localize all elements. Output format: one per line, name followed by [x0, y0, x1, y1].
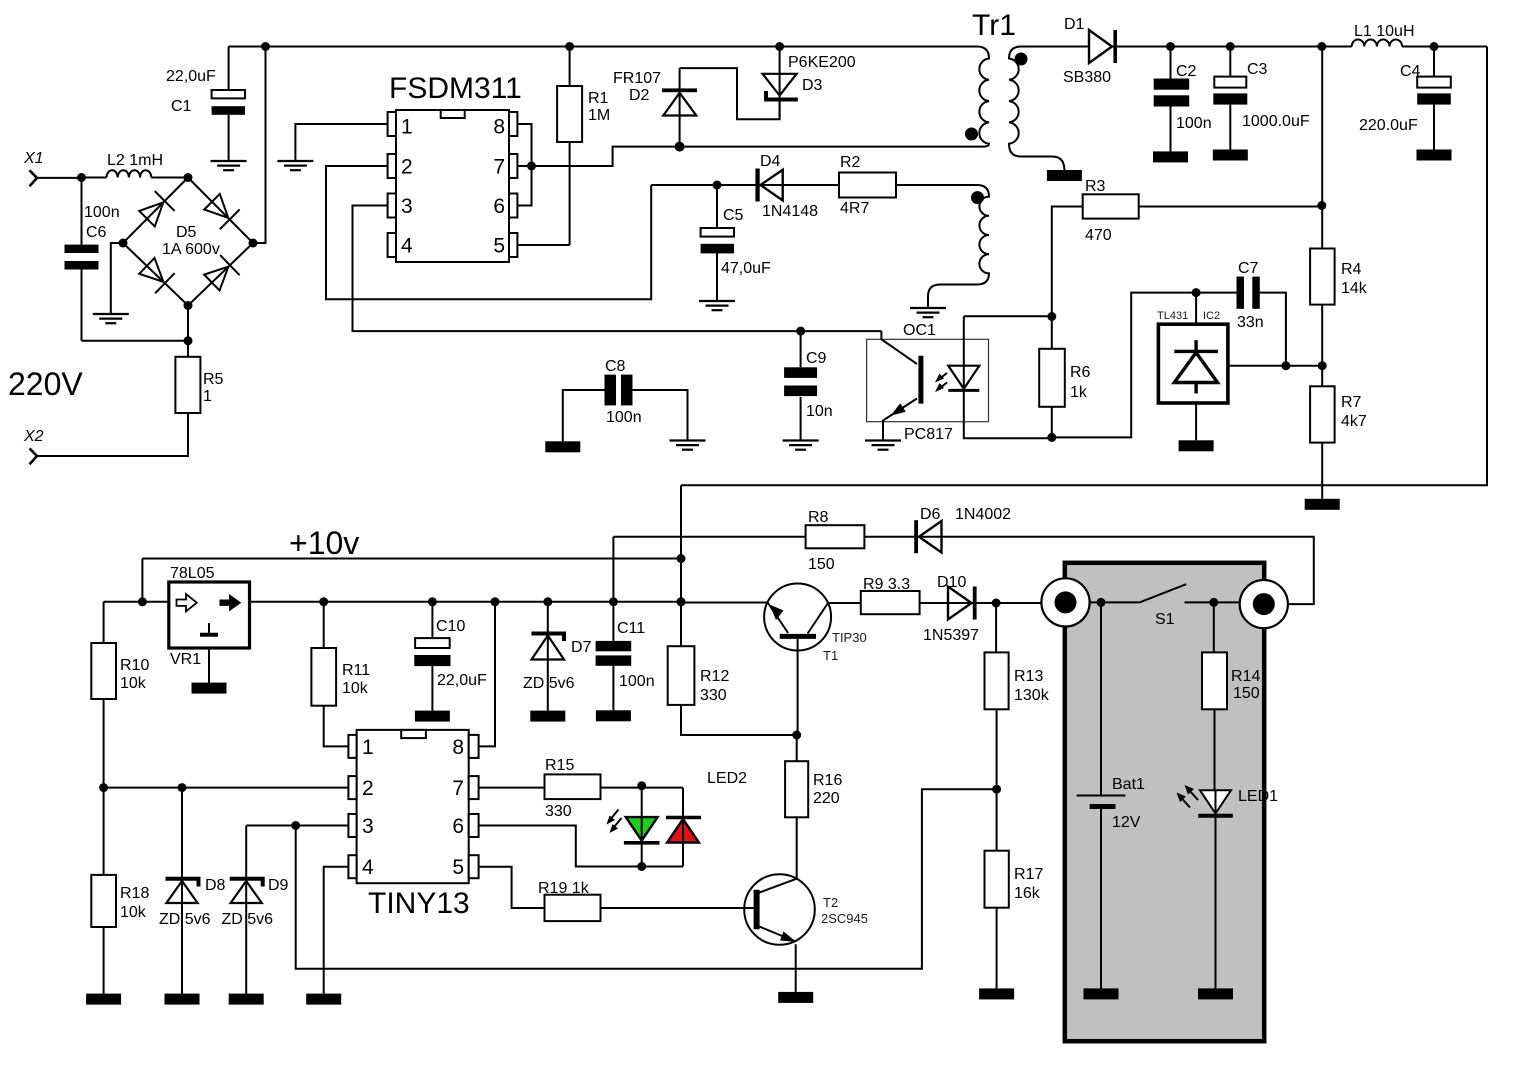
OC1 light arrows — [935, 373, 947, 392]
pin 4 (FSDM311) — [388, 233, 413, 258]
svg-text:150: 150 — [1233, 685, 1260, 702]
svg-text:R3: R3 — [1085, 178, 1106, 195]
svg-text:14k: 14k — [1341, 280, 1368, 297]
diode D4 1N4148 — [755, 153, 818, 220]
ground bar (Bat1) — [1084, 988, 1119, 999]
wire: node to D4 — [651, 184, 839, 186]
bridge diode top-right — [202, 192, 239, 229]
svg-text:R18: R18 — [120, 885, 149, 902]
svg-text:D3: D3 — [802, 77, 823, 94]
ground bar (TL431 anode) — [1179, 440, 1214, 451]
svg-text:C10: C10 — [436, 618, 465, 635]
transistor T1 TIP30 — [764, 584, 867, 736]
svg-text:R2: R2 — [840, 154, 861, 171]
svg-text:C8: C8 — [605, 358, 626, 375]
resistor R3 470 — [1052, 178, 1322, 317]
ground bar (R18) — [86, 994, 121, 1005]
wire: VR1 ground lead — [208, 648, 210, 683]
svg-text:R10: R10 — [120, 657, 149, 674]
bridge rectifier D5 : diamond wires — [123, 178, 253, 306]
ground bar (C2) — [1153, 151, 1188, 162]
resistor R17 16k — [985, 851, 1044, 989]
wire: pin2 row (R10/R18, D8) — [104, 787, 349, 789]
node: R3 right / R4 top — [1317, 201, 1326, 210]
resistor R2 4R7 — [839, 154, 896, 217]
ground bar (D9) — [229, 994, 264, 1005]
node: C5 / D4 — [713, 181, 722, 190]
svg-text:D9: D9 — [268, 877, 289, 894]
LED1 — [1198, 788, 1278, 988]
ground bar (pin4) — [306, 994, 341, 1005]
node: R3/R6/OC1-anode — [1047, 312, 1056, 321]
ground bar (C4) — [1417, 150, 1452, 161]
diode D2 FR107 — [613, 68, 697, 147]
svg-text:R12: R12 — [700, 668, 729, 685]
ground (aux winding) — [910, 308, 946, 317]
svg-text:Tr1: Tr1 — [972, 9, 1016, 42]
resistor R12 330 — [668, 646, 797, 735]
ground bar (D8) — [165, 994, 200, 1005]
wire: T1 collector to R9 — [828, 602, 861, 604]
node: +10v / output feed — [677, 554, 686, 563]
node: D10 / R13 — [992, 599, 1001, 608]
wire: +10v rail — [142, 559, 681, 602]
ground bar (T2 emitter) — [778, 992, 813, 1003]
svg-text:10n: 10n — [806, 403, 833, 420]
inductor L1 10uH — [1352, 23, 1487, 47]
svg-text:10k: 10k — [120, 675, 147, 692]
svg-text:ZD 5v6: ZD 5v6 — [523, 675, 575, 692]
ground bar (R17) — [979, 988, 1014, 999]
svg-text:R11: R11 — [342, 662, 370, 679]
wire: pin3 long feedback line to OC1 — [353, 206, 882, 332]
wire: R8 branch corner — [612, 537, 614, 602]
capacitor C4 — [1359, 47, 1451, 150]
battery Bat1 12V — [1077, 602, 1145, 988]
node: L1 left — [1317, 42, 1326, 51]
wire: left jack to S1 — [1090, 601, 1140, 603]
node: secondary phase dot — [1015, 53, 1028, 66]
svg-text:LED2: LED2 — [707, 770, 747, 787]
svg-text:220.0uF: 220.0uF — [1359, 117, 1418, 134]
node: bridge top — [184, 173, 193, 182]
svg-text:1N4002: 1N4002 — [955, 506, 1011, 523]
svg-text:150: 150 — [808, 556, 835, 573]
pin 1 (TINY13) — [348, 735, 373, 759]
optocoupler OC1 PC817 box — [867, 322, 989, 443]
svg-text:PC817: PC817 — [904, 426, 953, 443]
svg-text:22,0uF: 22,0uF — [437, 672, 487, 689]
pin 8 (TINY13) — [452, 735, 478, 759]
wire: R19 to T2 base — [601, 907, 754, 909]
capacitor C3 — [1213, 47, 1310, 150]
node: C4 top — [1430, 42, 1439, 51]
node: T1 base / R12 / R16 — [792, 731, 801, 740]
svg-text:1N4148: 1N4148 — [762, 203, 818, 220]
node: primary phase dot — [965, 128, 978, 141]
capacitor C9 — [784, 331, 833, 440]
svg-text:10k: 10k — [120, 904, 147, 921]
node: C10 top — [428, 597, 437, 606]
node: +10v corner on rail — [138, 597, 147, 606]
svg-text:+10v: +10v — [289, 525, 359, 561]
svg-text:C6: C6 — [86, 224, 107, 241]
OC1 phototransistor — [881, 331, 921, 440]
capacitor C6 — [65, 178, 120, 341]
node: pin3 line / C9 — [796, 327, 805, 336]
svg-text:5: 5 — [493, 235, 505, 258]
svg-text:R5: R5 — [203, 371, 224, 388]
node: pin3 branch — [291, 821, 300, 830]
LED2 red diode — [666, 788, 701, 867]
capacitor C10 — [414, 602, 487, 711]
pin 2 (FSDM311) — [388, 154, 413, 179]
Tr1 secondary winding — [1009, 47, 1088, 171]
svg-text:D10: D10 — [937, 574, 966, 591]
node: aux phase dot — [971, 191, 984, 204]
resistor R4 14k — [1310, 47, 1368, 366]
ground (C5) — [699, 301, 735, 310]
Tr1 primary winding — [977, 47, 989, 147]
svg-text:L2 1mH: L2 1mH — [107, 152, 163, 169]
svg-text:4: 4 — [362, 856, 374, 879]
svg-text:R7: R7 — [1341, 394, 1362, 411]
wire: pin3 branch to battery divider — [296, 789, 997, 969]
svg-text:R19 1k: R19 1k — [538, 880, 590, 897]
svg-text:FR107: FR107 — [613, 70, 661, 87]
svg-text:TL431: TL431 — [1157, 310, 1188, 322]
svg-text:7: 7 — [452, 777, 464, 800]
ground (C8 right) — [670, 441, 706, 450]
svg-text:330: 330 — [700, 687, 727, 704]
svg-text:C2: C2 — [1176, 63, 1197, 80]
ground bar (C3) — [1213, 150, 1248, 161]
zener D3 P6KE200 — [763, 47, 856, 120]
ground bar (D7) — [530, 711, 565, 722]
node: C2 top — [1166, 42, 1175, 51]
wire: R5 to X2 — [37, 413, 188, 456]
bridge diode top-left — [137, 191, 174, 228]
connector jack left — [1041, 578, 1089, 626]
svg-text:T1: T1 — [823, 648, 838, 663]
node: D8 top — [178, 783, 187, 792]
svg-text:7: 7 — [493, 156, 505, 179]
svg-text:R4: R4 — [1341, 261, 1362, 278]
svg-text:D4: D4 — [760, 153, 781, 170]
OC1 LED — [948, 316, 1052, 438]
pin 2 (TINY13) — [348, 776, 373, 800]
capacitor C11 — [596, 602, 655, 711]
resistor R1 — [517, 47, 610, 246]
svg-text:1000.0uF: 1000.0uF — [1242, 113, 1310, 130]
svg-text:2SC945: 2SC945 — [821, 911, 868, 926]
node: R13/R17 divider — [992, 785, 1001, 794]
svg-text:100n: 100n — [606, 409, 642, 426]
svg-text:Bat1: Bat1 — [1112, 776, 1145, 793]
wire: bridge bottom to R5 — [187, 306, 189, 357]
svg-text:X2: X2 — [23, 428, 44, 445]
svg-text:SB380: SB380 — [1063, 69, 1111, 86]
diode D6 1N4002 — [864, 506, 1313, 604]
pin 6 (TINY13) — [452, 814, 478, 838]
LED1 light arrows — [1177, 785, 1199, 808]
svg-text:1A 600v: 1A 600v — [162, 241, 220, 258]
resistor R14 150 — [1202, 602, 1260, 790]
svg-text:8: 8 — [493, 116, 505, 139]
wire: pin3 row — [246, 825, 348, 827]
resistor R9 3.3 — [861, 576, 920, 614]
resistor R19 1k — [538, 880, 601, 921]
wire: output right rail — [681, 47, 1487, 486]
capacitor C1 — [166, 47, 245, 162]
svg-text:R16: R16 — [813, 772, 842, 789]
pin 7 (TINY13) — [452, 776, 478, 800]
node: bridge left — [119, 239, 128, 248]
svg-text:1k: 1k — [1070, 384, 1088, 401]
svg-text:470: 470 — [1085, 227, 1112, 244]
resistor R8 150 — [613, 509, 864, 573]
svg-text:S1: S1 — [1155, 611, 1175, 628]
wire: rail to T1 emitter — [681, 602, 768, 604]
wire: HV+ top rail from C1 corner to transformer primary — [229, 46, 977, 48]
svg-text:R15: R15 — [545, 757, 574, 774]
svg-text:LED1: LED1 — [1238, 788, 1278, 805]
svg-text:3: 3 — [362, 815, 374, 838]
svg-text:100n: 100n — [619, 673, 655, 690]
resistor R6 1k — [1039, 317, 1090, 438]
node: R11 top — [319, 597, 328, 606]
wire: OC1 LED anode to R3/R6 node — [964, 315, 1052, 317]
svg-text:4R7: 4R7 — [840, 200, 869, 217]
bridge diode bottom-left — [137, 256, 174, 294]
svg-text:220: 220 — [813, 790, 840, 807]
svg-text:VR1: VR1 — [170, 651, 201, 668]
bridge diode bottom-right — [202, 255, 239, 293]
wire: pin2 loop to C5 node — [326, 166, 651, 299]
svg-text:1M: 1M — [588, 107, 610, 124]
svg-text:5: 5 — [452, 856, 464, 879]
diode D10 1N5397 — [920, 574, 1042, 644]
svg-text:47,0uF: 47,0uF — [721, 260, 771, 277]
switch S1 — [1140, 584, 1240, 628]
IC2 TL431 — [1157, 293, 1228, 441]
svg-text:ZD 5v6: ZD 5v6 — [222, 911, 274, 928]
ground (pin1 FSDM) — [277, 161, 313, 170]
svg-text:100n: 100n — [84, 204, 120, 221]
pin 1 (FSDM311) — [388, 112, 413, 139]
regulator VR1 78L05 — [169, 565, 250, 668]
resistor R10 10k — [91, 602, 149, 788]
wire: bridge left corner to ground — [111, 243, 123, 314]
wire: C6 bottom to junction — [82, 340, 189, 342]
node: C7 right — [1281, 361, 1290, 370]
svg-text:1N5397: 1N5397 — [923, 627, 979, 644]
terminal X1 — [23, 150, 82, 186]
LED2 green diode — [624, 788, 660, 867]
svg-text:D1: D1 — [1064, 16, 1085, 33]
node: R1 top — [565, 42, 574, 51]
inductor L2 1mH — [82, 152, 189, 178]
svg-text:4: 4 — [401, 235, 413, 258]
svg-text:8: 8 — [452, 736, 464, 759]
svg-text:C1: C1 — [171, 98, 192, 115]
svg-text:C3: C3 — [1247, 61, 1268, 78]
wire: pin5 to R19 — [479, 867, 545, 908]
svg-text:X1: X1 — [23, 150, 44, 167]
node: D3 top — [775, 42, 784, 51]
node: pin8 riser — [491, 597, 500, 606]
svg-text:C11: C11 — [617, 620, 645, 637]
node: R14 top — [1209, 598, 1218, 607]
wire: pin6 to LED2 bottom — [479, 826, 683, 867]
resistor R7 4k7 — [1310, 366, 1367, 499]
resistor R16 220 — [785, 735, 842, 879]
wire: pins 8-6 tie — [517, 124, 531, 206]
svg-text:IC2: IC2 — [1203, 310, 1220, 322]
svg-text:D6: D6 — [920, 506, 941, 523]
svg-text:1: 1 — [362, 736, 374, 759]
svg-text:D8: D8 — [205, 877, 226, 894]
svg-text:R1: R1 — [588, 90, 609, 107]
node: D7 top — [543, 597, 552, 606]
svg-text:12V: 12V — [1112, 814, 1141, 831]
zener D9 ZD 5v6 — [222, 826, 289, 994]
LED2 light arrows — [607, 810, 622, 834]
svg-text:C7: C7 — [1238, 260, 1259, 277]
capacitor C8 — [563, 358, 688, 441]
node: HV rail / bridge — [261, 42, 270, 51]
capacitor C7 33n — [1237, 260, 1286, 366]
svg-text:C4: C4 — [1400, 63, 1421, 80]
Tr1 auxiliary winding — [896, 185, 989, 308]
svg-text:1: 1 — [401, 116, 413, 139]
pin 8 (FSDM311) — [493, 112, 517, 139]
resistor R15 330 — [479, 757, 683, 820]
svg-text:220V: 220V — [8, 366, 83, 402]
svg-text:D2: D2 — [629, 87, 650, 104]
capacitor C5 — [701, 185, 771, 301]
svg-text:C9: C9 — [806, 350, 827, 367]
resistor R11 10k — [311, 602, 370, 747]
pin 5 (FSDM311) — [493, 233, 517, 258]
node: TL431 cathode — [1192, 288, 1201, 297]
resistor R5 — [175, 357, 223, 413]
svg-text:L1 10uH: L1 10uH — [1354, 23, 1415, 40]
svg-text:R17: R17 — [1014, 866, 1043, 883]
svg-text:2: 2 — [401, 156, 413, 179]
wire: rail to pin8 TINY13 — [479, 602, 495, 747]
zener D8 ZD5v6 — [159, 788, 226, 994]
node: R6 bottom / OC1 cathode / TL431 — [1047, 433, 1056, 442]
node: D2 anode / pin7 / primary bottom — [675, 142, 685, 152]
svg-text:OC1: OC1 — [903, 322, 936, 339]
svg-text:FSDM311: FSDM311 — [389, 72, 522, 105]
ground (OC1 emitter) — [865, 441, 901, 450]
svg-text:TINY13: TINY13 — [368, 887, 470, 920]
ground (bridge left) — [93, 314, 129, 323]
wire: R6 bottom to TL431 cathode loop — [1052, 293, 1237, 438]
node: C3 top — [1226, 42, 1235, 51]
node: rail/R12 — [677, 597, 686, 606]
svg-text:2: 2 — [362, 777, 374, 800]
node: LED2 top — [637, 781, 646, 790]
node: pin 6/7/8 tie — [527, 162, 536, 171]
pin 5 (TINY13) — [452, 855, 478, 879]
IC U1 FSDM311 body — [389, 72, 522, 262]
node: Bat1 top — [1097, 598, 1106, 607]
svg-text:D7: D7 — [571, 639, 592, 656]
ground bar (R7 / output common) — [1305, 499, 1340, 510]
svg-text:D5: D5 — [176, 224, 197, 241]
pin 7 (FSDM311) — [493, 154, 517, 179]
pin 4 (TINY13) — [348, 855, 374, 879]
wire: pin4 to ground — [324, 867, 349, 994]
ground bar (C11) — [596, 710, 631, 721]
svg-text:33n: 33n — [1237, 314, 1264, 331]
terminal X2 — [23, 428, 44, 464]
node: R4/R7 divider — [1318, 361, 1327, 370]
connector jack right — [1240, 580, 1288, 628]
node: bridge right — [249, 239, 258, 248]
svg-text:P6KE200: P6KE200 — [788, 54, 856, 71]
ground bar (C8 left) — [545, 441, 580, 452]
wire: TL431 ref to R4/R7 divider — [1228, 365, 1322, 367]
pin 6 (FSDM311) — [493, 194, 517, 219]
svg-text:C5: C5 — [723, 207, 744, 224]
svg-text:6: 6 — [452, 815, 464, 838]
svg-text:3: 3 — [401, 195, 413, 218]
ground bar (VR1) — [192, 683, 227, 694]
svg-text:10k: 10k — [342, 680, 369, 697]
node: X1 junction — [77, 173, 86, 182]
svg-text:16k: 16k — [1014, 885, 1041, 902]
node: LED2 bottom — [637, 862, 646, 871]
pin 3 (TINY13) — [348, 814, 373, 838]
svg-text:78L05: 78L05 — [170, 565, 215, 582]
diode D1 SB380 — [1063, 16, 1352, 86]
ground bar (secondary return) — [1047, 170, 1082, 181]
node: bridge bottom — [184, 301, 193, 310]
svg-text:R13: R13 — [1014, 668, 1043, 685]
pin 3 (FSDM311) — [388, 194, 413, 219]
wire: vertical output to R12 — [680, 485, 682, 646]
wire: Vin rail — [104, 601, 681, 603]
capacitor C2 — [1154, 47, 1212, 152]
svg-text:330: 330 — [545, 803, 572, 820]
transistor T2 2SC945 — [744, 874, 868, 992]
svg-text:R6: R6 — [1070, 364, 1091, 381]
svg-text:4k7: 4k7 — [1341, 413, 1367, 430]
ground (C9) — [783, 441, 819, 450]
resistor R18 10k — [91, 788, 149, 994]
wire: pin1 to ground — [295, 124, 387, 161]
node: C11 top — [609, 597, 618, 606]
svg-text:R14: R14 — [1231, 668, 1260, 685]
wire: D3 cathode zigzag to D2 cathode — [680, 68, 780, 119]
svg-text:6: 6 — [493, 195, 505, 218]
svg-text:R8: R8 — [808, 509, 829, 526]
wire: pin7 to D2 node — [517, 147, 680, 166]
wire: bridge right corner up to HV rail — [253, 47, 266, 244]
svg-text:100n: 100n — [1176, 115, 1212, 132]
svg-text:22,0uF: 22,0uF — [166, 68, 216, 85]
wire: D2 node to primary winding bottom — [680, 146, 983, 148]
battery compartment box — [1065, 563, 1264, 1041]
resistor R13 130k — [985, 603, 1050, 851]
ground (C1) — [211, 161, 247, 170]
svg-text:1: 1 — [203, 388, 212, 405]
svg-text:130k: 130k — [1014, 687, 1050, 704]
